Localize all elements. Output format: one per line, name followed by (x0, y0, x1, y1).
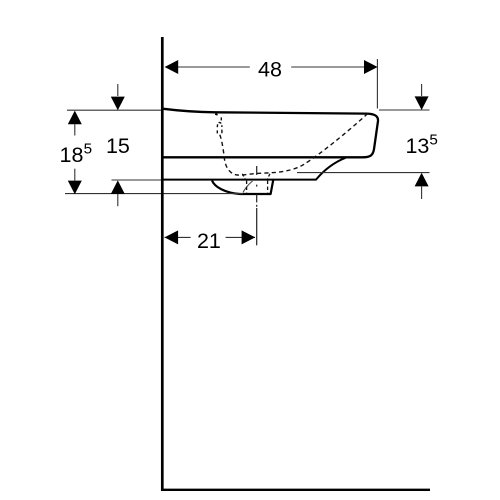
svg-text:18: 18 (60, 143, 84, 167)
svg-text:5: 5 (429, 132, 437, 149)
svg-text:48: 48 (258, 57, 282, 81)
svg-text:21: 21 (197, 229, 221, 253)
svg-text:5: 5 (84, 140, 92, 157)
svg-text:15: 15 (106, 134, 130, 158)
svg-text:13: 13 (405, 134, 429, 158)
